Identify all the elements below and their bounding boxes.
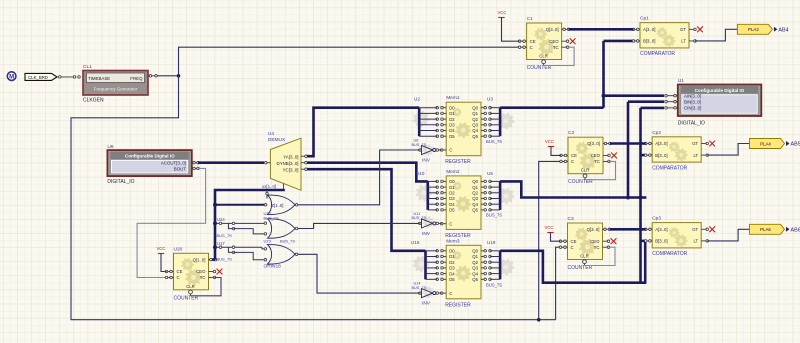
bus tap U17 jog [228, 247, 233, 252]
junction U24 [213, 221, 217, 225]
wire BOUT to counter U20 clock [137, 168, 206, 277]
svg-text:Configurable Digital IO: Configurable Digital IO [125, 153, 175, 158]
svg-text:FREQ: FREQ [130, 76, 143, 81]
bus to U1 CIN [641, 107, 665, 110]
Mem3 right bus tap [490, 267, 500, 269]
svg-text:D1: D1 [449, 111, 455, 116]
svg-text:Mem3: Mem3 [446, 238, 460, 244]
bus demux select vertical [215, 189, 284, 260]
bus stub to Cp2.B [641, 154, 646, 157]
Mem3 right bus tap [490, 250, 500, 252]
svg-text:YC[3..0]: YC[3..0] [283, 167, 299, 172]
bus C3.Q to Cp3.A [610, 228, 646, 231]
Mem3 left bus vertical [424, 251, 427, 279]
svg-text:Cp3: Cp3 [652, 216, 661, 222]
svg-text:GT: GT [692, 227, 698, 232]
register Mem1 pin D5 [442, 135, 447, 137]
svg-text:BUS_7S: BUS_7S [486, 213, 502, 218]
counter C2 pin C [561, 160, 568, 162]
svg-text:TC: TC [553, 45, 559, 50]
bus BIN vertical [627, 102, 630, 198]
svg-text:BUS_7S: BUS_7S [486, 282, 502, 287]
counter C2 pin CEO [603, 154, 609, 156]
svg-text:INV: INV [422, 231, 431, 237]
Mem2 right bus tap [490, 198, 500, 200]
comparator Cp1 pin LT [689, 40, 695, 42]
frequency generator CL1 body [83, 71, 148, 96]
svg-text:Q4: Q4 [472, 271, 478, 276]
svg-text:COMPARATOR: COMPARATOR [652, 251, 687, 257]
Mem2 right bus tap [490, 180, 500, 182]
comparator Cp1 body [640, 23, 689, 48]
Mem3 left bus tap [426, 256, 438, 258]
register Mem2 pin Q0 [481, 180, 486, 182]
svg-text:D2: D2 [449, 191, 455, 196]
svg-text:C: C [449, 291, 452, 296]
svg-text:ORIN18: ORIN18 [264, 264, 282, 270]
Mem3 right bus tap [490, 278, 500, 280]
register Mem2 pin Q5 [481, 209, 486, 211]
svg-text:U1: U1 [678, 78, 684, 84]
Mem3 right bus tap [490, 273, 500, 275]
register Mem1 pin Q5 [481, 135, 486, 137]
net label AB5 [786, 141, 790, 146]
register Mem1 pin D1 [442, 112, 447, 114]
counter U20 pin CLR (active low bubble) [189, 290, 193, 294]
Mem2 left bus tap [428, 203, 437, 205]
counter C3 body [568, 223, 603, 260]
Mem3 left bus tap [426, 273, 438, 275]
wire select bus to OR1 input2 [215, 204, 266, 206]
svg-text:TC: TC [200, 275, 206, 280]
junction AIN [602, 94, 606, 98]
U6 pin BOUT [192, 167, 198, 169]
svg-text:Q1: Q1 [472, 254, 478, 259]
configurable digital IO U6 body [107, 150, 191, 176]
svg-text:INV: INV [422, 158, 431, 164]
Mem1 left bus vertical [418, 108, 421, 137]
demux U4 body [270, 138, 301, 190]
svg-text:Q1: Q1 [472, 185, 478, 190]
U6 pin ACOUT [192, 162, 198, 164]
svg-text:D5: D5 [449, 277, 455, 282]
svg-text:D0: D0 [449, 105, 455, 110]
svg-text:CLK_BRD: CLK_BRD [28, 75, 48, 80]
svg-text:D0: D0 [449, 179, 455, 184]
svg-text:U5: U5 [487, 171, 493, 176]
bus demux YC to Mem3 D-bus [307, 169, 426, 251]
svg-text:B[3..0]: B[3..0] [655, 239, 667, 244]
wire PLA6 from comparator LT [707, 229, 749, 241]
Mem2 right bus tap [490, 192, 500, 194]
svg-text:REGISTER: REGISTER [445, 302, 471, 308]
svg-text:DIGITAL_IO: DIGITAL_IO [678, 121, 705, 127]
wire INV1 to Mem1.C [439, 149, 442, 151]
bus to Cp1.B [604, 40, 634, 43]
counter U20 pin Q [209, 259, 216, 261]
counter C1 pin C [520, 46, 527, 48]
svg-text:GT: GT [692, 141, 698, 146]
bus demux YB to Mem2 D-bus [307, 163, 428, 182]
register Mem3 pin C [442, 292, 447, 294]
svg-text:U19: U19 [487, 240, 496, 245]
register Mem1 pin Q3 [481, 124, 486, 126]
U1 pin AIN [666, 95, 678, 97]
svg-text:Q[3..0]: Q[3..0] [587, 141, 600, 146]
svg-text:C: C [177, 275, 180, 280]
counter C1 pin Q [562, 28, 569, 30]
Mem1 right bus tap [490, 130, 500, 132]
inverter INV3 body [422, 289, 433, 298]
svg-text:B[3..0]: B[3..0] [655, 153, 667, 158]
register Mem2 pin Q1 [481, 186, 486, 188]
register Mem3 pin D2 [442, 261, 447, 263]
Mem2 right bus tap [490, 186, 500, 188]
svg-text:AB4: AB4 [778, 27, 788, 33]
svg-text:D1: D1 [449, 185, 455, 190]
svg-text:U20: U20 [174, 246, 183, 252]
svg-text:Q0: Q0 [472, 105, 478, 110]
U1 pin CIN [666, 107, 678, 109]
Mem3 right bus tap [490, 256, 500, 258]
svg-text:AB5: AB5 [791, 142, 800, 148]
wire OR1 output to INV1 [298, 150, 420, 205]
svg-text:CE: CE [571, 153, 577, 158]
register Mem2 pin Q2 [481, 192, 486, 194]
register Mem2 pin D2 [442, 192, 447, 194]
counter C2 pin TC [603, 160, 609, 162]
bus C1.Q to Cp1.A [569, 28, 634, 31]
Mem1 right bus tap [490, 107, 500, 109]
U1 pin BIN [666, 101, 678, 103]
svg-text:D0: D0 [449, 249, 455, 254]
comparator Cp1 pin B [634, 40, 641, 42]
or-gate OR3 body [268, 245, 296, 264]
Mem2 left bus tap [428, 198, 437, 200]
svg-text:D3: D3 [449, 196, 455, 201]
counter C2 pin CE [561, 154, 568, 156]
Mem1 right bus tap [490, 118, 500, 120]
svg-text:D4: D4 [449, 128, 455, 133]
counter C3 pin TC [603, 246, 609, 248]
svg-text:VCC: VCC [498, 10, 507, 15]
bus U20.Q to select bus [212, 258, 215, 261]
svg-text:CLR: CLR [539, 54, 548, 59]
register Mem3 pin D4 [442, 273, 447, 275]
register Mem3 pin Q4 [481, 273, 486, 275]
Mem1 left bus tap [419, 112, 437, 114]
bus to U1 BIN [628, 100, 664, 103]
svg-text:M: M [9, 74, 14, 80]
Mem3 right bus vertical [499, 251, 502, 279]
net label AB6 [786, 227, 790, 232]
register Mem3 pin D3 [442, 267, 447, 269]
Mem2 left bus tap [428, 186, 437, 188]
svg-text:U23: U23 [264, 238, 272, 243]
Mem2 left bus tap [428, 192, 437, 194]
svg-text:D2: D2 [449, 117, 455, 122]
register Mem1 pin D3 [442, 124, 447, 126]
register Mem3 pin D0 [442, 250, 447, 252]
comparator Cp2 pin GT [701, 143, 707, 145]
svg-text:Q0: Q0 [472, 179, 478, 184]
register Mem1 pin Q0 [481, 107, 486, 109]
bus tap U24 row1 [215, 222, 266, 224]
svg-text:Q0: Q0 [472, 249, 478, 254]
svg-text:LT: LT [693, 239, 698, 244]
register Mem3 pin Q2 [481, 261, 486, 263]
svg-text:GT: GT [680, 27, 686, 32]
Mem1 right bus tap [490, 135, 500, 137]
demux U4 output pin YB [301, 162, 307, 164]
Mem1 right bus tap [490, 124, 500, 126]
register Mem3 pin D1 [442, 256, 447, 258]
svg-text:D4: D4 [449, 202, 455, 207]
svg-text:VCC: VCC [157, 246, 166, 251]
svg-text:D4: D4 [449, 271, 455, 276]
svg-text:BUS_7S: BUS_7S [412, 216, 427, 220]
svg-text:PLA4: PLA4 [760, 141, 771, 146]
wire PLA2 from comparator LT [695, 29, 737, 41]
register Mem3 pin D5 [442, 278, 447, 280]
demux U4 output pin YA [301, 155, 307, 157]
junction clock node [177, 74, 181, 78]
wire PLA4 from comparator LT [707, 144, 749, 156]
svg-text:BUS_7S: BUS_7S [412, 143, 427, 147]
counter C1 pin CLR (active low bubble) [542, 60, 546, 64]
frequency generator CL1 pin TIMEBASE [78, 76, 81, 79]
svg-text:CEO: CEO [549, 39, 559, 44]
bus C2.Q to Cp2.A [610, 142, 646, 145]
svg-text:C: C [571, 245, 574, 250]
comparator Cp1 pin A [634, 28, 641, 30]
Mem2 right bus tap [490, 203, 500, 205]
register Mem1 pin Q1 [481, 112, 486, 114]
net label AB4 [774, 27, 778, 32]
svg-text:TC: TC [594, 159, 600, 164]
wire clock riser to counter C3 clock [556, 247, 561, 320]
svg-text:D5: D5 [449, 134, 455, 139]
svg-text:REGISTER: REGISTER [445, 159, 471, 165]
wire U17 row1 jog to OR3 input1 [262, 247, 266, 249]
bus Mem2.Q horizontal run [500, 181, 646, 197]
bus tap U24 jog [228, 223, 233, 228]
Mem1 left bus tap [419, 124, 437, 126]
counter C3 TC-to-CLR feedback wire [585, 247, 616, 265]
counter C2 no-ERC marker on CEO [611, 153, 617, 159]
svg-text:Q5: Q5 [472, 277, 478, 282]
register Mem3 pin Q0 [481, 250, 486, 252]
svg-text:Q4: Q4 [472, 202, 478, 207]
svg-text:U10: U10 [416, 171, 425, 176]
register Mem1 pin Q4 [481, 130, 486, 132]
svg-text:Mem1: Mem1 [446, 95, 460, 101]
svg-text:CE: CE [571, 239, 577, 244]
svg-text:U3: U3 [487, 97, 493, 102]
svg-text:C: C [449, 221, 452, 226]
register Mem3 body [446, 245, 481, 298]
svg-text:BUS_7S: BUS_7S [217, 257, 233, 262]
inverter INV2 body [422, 219, 433, 228]
svg-text:CLR: CLR [186, 284, 195, 289]
counter U20 pin TC [209, 277, 215, 279]
comparator Cp2 pin B [646, 154, 653, 156]
wire CLK_BRD to CLKGEN [57, 76, 77, 78]
or-gate OR2 output pin [295, 227, 298, 230]
Mem1 left bus tap [419, 118, 437, 120]
svg-text:CEO: CEO [591, 153, 601, 158]
svg-text:D1: D1 [449, 254, 455, 259]
register Mem3 pin Q5 [481, 278, 486, 280]
svg-text:Z[1..0]: Z[1..0] [272, 203, 284, 208]
comparator Cp1 no-ERC marker on GT [697, 26, 703, 32]
wire U17 to OR3 input2 [234, 252, 266, 259]
register Mem1 pin D4 [442, 130, 447, 132]
svg-text:Q2: Q2 [472, 191, 478, 196]
counter C3 pin C [561, 246, 568, 248]
svg-text:Configurable Digital IO: Configurable Digital IO [695, 88, 745, 93]
svg-text:Q3: Q3 [472, 196, 478, 201]
svg-text:AIN[3..0]: AIN[3..0] [684, 94, 701, 99]
wire select bus to OR1 input1 [266, 190, 268, 199]
register Mem2 pin D3 [442, 198, 447, 200]
counter C3 pin Q [603, 228, 610, 230]
Mem3 left bus tap [426, 278, 438, 280]
svg-text:YA[3..0]: YA[3..0] [283, 154, 298, 159]
Mem3 left bus tap [426, 267, 438, 269]
svg-text:D2: D2 [449, 260, 455, 265]
counter U20 pin C [167, 277, 174, 279]
counter C1 body [527, 23, 562, 60]
svg-text:VCC: VCC [545, 225, 554, 230]
svg-text:TC: TC [594, 245, 600, 250]
wire INV3 to Mem3.C [439, 292, 442, 294]
comparator Cp1 pin GT [689, 28, 695, 30]
counter C1 TC-to-CLR feedback wire [544, 47, 575, 65]
port CLK_BRD [25, 73, 57, 80]
junction clock bottom [537, 318, 541, 322]
svg-text:Cp2: Cp2 [652, 130, 661, 136]
svg-text:Q[3..0]: Q[3..0] [546, 27, 559, 32]
svg-text:Q1: Q1 [472, 111, 478, 116]
svg-text:CLKGEN: CLKGEN [83, 98, 104, 104]
inverter INV1 body [422, 145, 433, 154]
wire OR2 output to INV2 [298, 223, 420, 228]
svg-text:CLR: CLR [581, 168, 590, 173]
junction U17 [213, 245, 217, 249]
watermark gears [413, 111, 430, 128]
svg-text:CE: CE [177, 269, 183, 274]
svg-text:A[3..0]: A[3..0] [643, 27, 655, 32]
svg-text:xx[1..0]: xx[1..0] [262, 184, 276, 189]
wire clock riser to counter C2 clock [539, 161, 561, 319]
demux U4 select pin S [283, 184, 285, 189]
svg-text:D3: D3 [449, 123, 455, 128]
register Mem1 pin Q2 [481, 118, 486, 120]
register Mem2 pin C [442, 223, 447, 225]
configurable digital IO U1 body [678, 85, 762, 117]
wire FREQ to clock node [158, 75, 179, 77]
svg-text:AB6: AB6 [791, 227, 800, 233]
comparator Cp3 pin GT [701, 228, 707, 230]
wire OR3 output to INV3 [298, 254, 420, 293]
inverter INV1 output pin [436, 149, 439, 151]
register Mem1 pin D2 [442, 118, 447, 120]
comparator Cp3 pin LT [701, 240, 707, 242]
svg-text:A[3..0]: A[3..0] [655, 141, 667, 146]
svg-text:U16: U16 [411, 240, 420, 245]
bus Mem1.Q to node A [500, 106, 603, 109]
svg-text:Q4: Q4 [472, 128, 478, 133]
svg-text:Q[3..0]: Q[3..0] [587, 227, 600, 232]
svg-text:Q5: Q5 [472, 134, 478, 139]
bus Mem3.Q horizontal run [500, 251, 646, 283]
svg-text:LT: LT [693, 153, 698, 158]
svg-text:PLA6: PLA6 [760, 227, 771, 232]
register Mem3 pin Q3 [481, 267, 486, 269]
svg-text:C: C [530, 45, 533, 50]
counter C1 pin CEO [562, 40, 568, 42]
junction OR1 input2 [213, 203, 217, 207]
frequency generator CL1 pin FREQ [148, 75, 158, 77]
register Mem2 body [446, 176, 481, 230]
inverter INV2 output pin [436, 222, 439, 224]
inverter INV1 input pin [419, 149, 422, 152]
svg-text:DYNB[3..0]: DYNB[3..0] [277, 161, 299, 166]
or-gate OR3 output pin [295, 253, 298, 256]
counter C2 pin CLR (active low bubble) [583, 174, 587, 178]
Mem2 left bus tap [428, 209, 437, 211]
counter C2 pin Q [603, 143, 610, 145]
Mem1 left bus tap [419, 130, 437, 132]
or-gate OR1 output pin [295, 204, 298, 207]
comparator Cp3 body [652, 223, 701, 248]
or-gate OR1 body [268, 195, 296, 214]
bus demux YA to Mem1 D-bus [307, 108, 419, 157]
Mem2 left bus vertical [426, 181, 429, 210]
svg-text:U6: U6 [107, 144, 113, 150]
port PLA2 [737, 24, 772, 34]
svg-text:U17: U17 [217, 241, 225, 246]
inverter INV3 input pin [419, 292, 422, 295]
svg-text:DIGITAL_IO: DIGITAL_IO [107, 179, 134, 185]
counter C1 no-ERC marker on CEO [570, 38, 576, 44]
svg-text:CEO: CEO [590, 239, 600, 244]
Mem2 right bus vertical [499, 181, 502, 210]
wire clock down-left branch [71, 76, 556, 320]
counter U20 no-ERC marker on CEO [217, 269, 223, 275]
svg-text:DEMUX: DEMUX [268, 137, 286, 143]
counter C3 pin CE [561, 240, 568, 242]
svg-text:BUS_7S: BUS_7S [486, 139, 502, 144]
svg-text:A[3..0]: A[3..0] [655, 227, 667, 232]
svg-text:Cp1: Cp1 [640, 16, 649, 22]
svg-text:CE: CE [530, 39, 536, 44]
svg-text:VCC: VCC [545, 139, 554, 144]
counter C3 pin CEO [603, 240, 609, 242]
svg-text:D5: D5 [449, 208, 455, 213]
wire INV2 to Mem2.C [439, 222, 442, 224]
Mem1 left bus tap [419, 135, 437, 137]
comparator Cp2 body [652, 137, 701, 162]
register Mem2 pin Q3 [481, 198, 486, 200]
svg-text:COMPARATOR: COMPARATOR [652, 165, 687, 171]
svg-text:PLA2: PLA2 [748, 27, 759, 32]
svg-text:ACOUT[3..0]: ACOUT[3..0] [161, 161, 186, 166]
svg-text:BUS_7S: BUS_7S [280, 238, 295, 243]
junction Mem2 bus / BIN [626, 196, 630, 200]
svg-text:COMPARATOR: COMPARATOR [640, 51, 675, 57]
